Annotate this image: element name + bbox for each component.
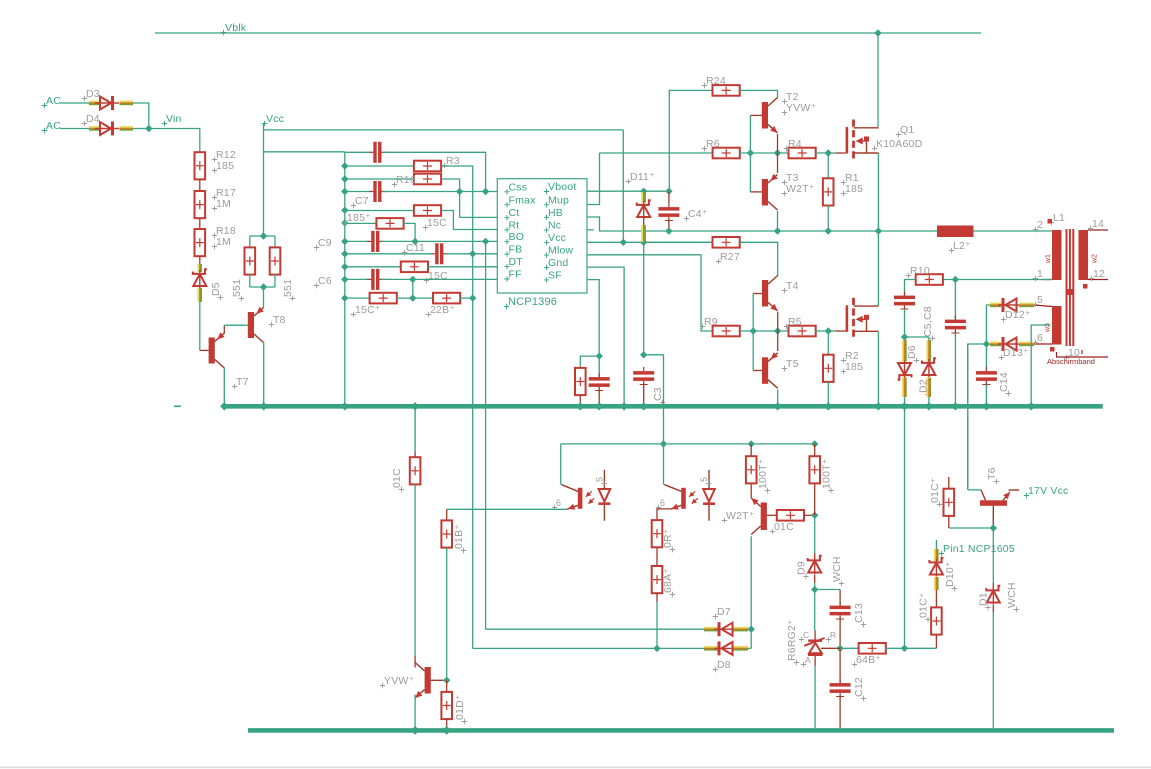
capacitor C7 bbox=[373, 181, 376, 202]
label 01D bbox=[462, 719, 467, 724]
svg-text:C4⁺: C4⁺ bbox=[688, 208, 708, 220]
bus junction 01Ccol bbox=[411, 402, 419, 410]
bus junction T8 bbox=[260, 402, 268, 410]
junction T6 base bbox=[990, 524, 997, 531]
pin 6 opto2 bbox=[656, 505, 661, 510]
label 01B bbox=[461, 548, 466, 553]
label D4 bbox=[82, 121, 87, 126]
svg-text:C3: C3 bbox=[652, 387, 664, 401]
value 1M bbox=[212, 244, 217, 249]
wire D7 row bbox=[486, 628, 706, 630]
wire C11 to FB bbox=[445, 253, 497, 255]
label T8 bbox=[269, 322, 274, 327]
wire rowE to Rt bbox=[441, 211, 497, 230]
label W2T bbox=[722, 518, 727, 523]
wire Vcc stub bbox=[263, 124, 265, 236]
junction 100T b bbox=[811, 440, 818, 447]
svg-text:Vin: Vin bbox=[166, 113, 182, 125]
wire D2 to bus bbox=[928, 397, 930, 406]
lead C13 top bbox=[839, 590, 841, 607]
label 64B bbox=[852, 662, 857, 667]
bus junction W3tap bbox=[1027, 402, 1035, 410]
wire L2 to xfmr bbox=[974, 230, 1053, 232]
lead R17-R18 bbox=[199, 218, 201, 229]
svg-text:D8: D8 bbox=[717, 659, 731, 671]
diode D3 symbol bbox=[100, 97, 111, 110]
svg-text:1M: 1M bbox=[216, 236, 231, 248]
svg-text:Gnd: Gnd bbox=[548, 257, 568, 269]
junction C3 top bbox=[640, 351, 647, 358]
wire 551 left join bbox=[249, 274, 251, 287]
label C7 bbox=[351, 203, 356, 208]
lead C12 top bbox=[839, 648, 841, 683]
junction ref node bbox=[836, 645, 843, 652]
junction Vcc riser bbox=[620, 239, 627, 246]
label C11 bbox=[402, 250, 407, 255]
wire C3 top bbox=[643, 242, 645, 354]
lead C4 top bbox=[668, 191, 670, 203]
svg-text:Q1: Q1 bbox=[900, 124, 914, 136]
pin name Gnd bbox=[544, 265, 549, 270]
minus marker bbox=[174, 405, 181, 407]
transformer shield pin line bbox=[1057, 352, 1109, 357]
lead C12 bot bbox=[839, 697, 841, 729]
svg-text:K10A60D: K10A60D bbox=[876, 138, 923, 150]
pin D4 anode bbox=[89, 126, 100, 128]
transformer core bbox=[1066, 229, 1068, 346]
inductor L2 bbox=[937, 226, 974, 238]
capacitor C14 bbox=[976, 371, 997, 375]
wire T8 collector down bbox=[263, 343, 265, 407]
wire T7C to T8B h bbox=[224, 324, 248, 326]
label T3 bbox=[782, 180, 787, 185]
net label 17V Vcc bbox=[1024, 493, 1029, 498]
svg-text:BO: BO bbox=[509, 231, 525, 243]
pin D10 top bbox=[934, 549, 936, 561]
wire Vcc to cap bus bbox=[264, 151, 345, 153]
wire W2T coll down bbox=[750, 536, 752, 629]
pin name Fmax bbox=[504, 202, 509, 207]
label D9 bbox=[803, 574, 808, 579]
wire T8 emitter up bbox=[263, 287, 265, 308]
svg-text:185⁺: 185⁺ bbox=[347, 212, 371, 224]
transistor T4 bbox=[762, 280, 768, 307]
svg-text:SF: SF bbox=[548, 269, 562, 281]
wire HB step bbox=[587, 217, 669, 231]
pin name Vcc bbox=[544, 240, 549, 245]
label C4 bbox=[684, 216, 689, 221]
junction C4 top bbox=[665, 188, 672, 195]
svg-text:R16: R16 bbox=[396, 174, 416, 186]
pin D7 right bbox=[734, 627, 749, 629]
wire cap bus bbox=[344, 152, 346, 406]
svg-text:R9: R9 bbox=[704, 316, 718, 328]
svg-text:R4: R4 bbox=[788, 138, 802, 150]
pin 5 bbox=[1033, 302, 1038, 307]
wire Ct feed bbox=[460, 216, 498, 218]
lead 68A down bbox=[656, 593, 658, 602]
junction rowH bbox=[341, 250, 348, 257]
pin name FF bbox=[504, 276, 509, 281]
pin name Mlow bbox=[544, 252, 549, 257]
svg-text:1: 1 bbox=[1037, 268, 1043, 280]
resistor 100T 1 bbox=[746, 456, 757, 483]
lead 01C t6 bot bbox=[948, 516, 950, 529]
transistor W2T bbox=[761, 503, 767, 531]
wire SF drop bbox=[587, 280, 599, 357]
capacitor C3 bbox=[633, 371, 654, 375]
op-amp U1 NCP1396 box bbox=[497, 179, 587, 293]
bus junction C3 bbox=[640, 402, 648, 410]
svg-text:C14: C14 bbox=[998, 372, 1010, 392]
label R4 bbox=[784, 146, 789, 151]
transistor T3 bbox=[762, 179, 768, 206]
label T2 bbox=[782, 99, 787, 104]
lead pin5 bbox=[1034, 305, 1052, 307]
label R18 bbox=[212, 233, 217, 238]
svg-text:185: 185 bbox=[845, 361, 863, 373]
zener D5 bbox=[193, 269, 207, 274]
resistor 0R bbox=[652, 520, 663, 547]
label R2 bbox=[841, 358, 846, 363]
resistor 15C rowK bbox=[370, 293, 397, 304]
svg-text:R27: R27 bbox=[720, 251, 740, 263]
zener D2 bbox=[922, 358, 936, 363]
bus junction gnd bbox=[620, 402, 628, 410]
wire Q1 drain bbox=[877, 127, 879, 129]
lead R12-R17 bbox=[199, 179, 201, 191]
lead 100T1 bot bbox=[750, 483, 752, 498]
pin 12 bbox=[1089, 276, 1094, 281]
lead Q1 gate bbox=[836, 152, 847, 154]
label NCP1396 bbox=[504, 304, 509, 309]
label D13 bbox=[999, 355, 1004, 360]
svg-text:6: 6 bbox=[556, 498, 561, 508]
wire ref row b bbox=[885, 647, 936, 649]
lead pin14 bbox=[1088, 229, 1108, 231]
svg-text:YVW⁺: YVW⁺ bbox=[786, 102, 817, 114]
value 185 bbox=[212, 168, 217, 173]
lead cap below IC top bbox=[598, 356, 600, 378]
resistor R12 bbox=[195, 152, 206, 179]
wire R24 to T2 coll bbox=[740, 90, 778, 97]
lead 01D top bbox=[446, 680, 448, 692]
resistor Rt 15C bbox=[414, 205, 441, 216]
wire T5 emit down bbox=[777, 390, 779, 407]
pin D7 left bbox=[704, 627, 719, 629]
transistor T6 bbox=[980, 500, 1007, 506]
label R17 bbox=[212, 195, 217, 200]
wire Vcc row bbox=[587, 241, 713, 243]
wire rowG left bbox=[345, 240, 369, 242]
junction rowB bbox=[341, 162, 348, 169]
resistor R9 bbox=[713, 326, 740, 337]
junction 551 bottom bbox=[260, 283, 267, 290]
zener D1 bbox=[986, 586, 1000, 591]
junction Vin bbox=[145, 125, 152, 132]
wire ref row a bbox=[840, 647, 859, 649]
value 22B rowK bbox=[426, 312, 431, 317]
wire R2 bottom bbox=[827, 382, 829, 406]
wire Mup riser bbox=[587, 153, 600, 205]
wire R10 left corner bbox=[905, 280, 916, 297]
capacitor C13 bbox=[830, 606, 851, 610]
svg-text:17V Vcc: 17V Vcc bbox=[1028, 485, 1069, 497]
wire BO-D7 vertical bbox=[485, 241, 487, 629]
wire IC Gnd col bbox=[623, 266, 625, 268]
pin D13 left bbox=[990, 342, 1001, 344]
junction T23 base bbox=[747, 149, 754, 156]
value WCH D1 bbox=[1014, 607, 1019, 612]
label R16 bbox=[392, 182, 397, 187]
label 01C d10 bbox=[925, 617, 930, 622]
wire C8 down bbox=[954, 333, 956, 406]
wire rowA left bbox=[345, 151, 371, 153]
svg-text:FB: FB bbox=[509, 244, 523, 256]
svg-text:AC: AC bbox=[46, 95, 61, 107]
resistor R3 bbox=[414, 161, 441, 172]
wire 551 bottom bbox=[250, 286, 275, 288]
junction R2 top bbox=[825, 327, 832, 334]
svg-text:L2⁺: L2⁺ bbox=[953, 240, 971, 252]
junction rowE bbox=[341, 207, 348, 214]
wire Vboot row bbox=[587, 190, 669, 192]
capacitor rowA bbox=[373, 142, 376, 163]
label R10 bbox=[906, 273, 911, 278]
pin name Vboot bbox=[544, 189, 549, 194]
lead C8 top bbox=[954, 280, 956, 321]
wire D10 node down bbox=[992, 528, 994, 583]
svg-text:64B⁺: 64B⁺ bbox=[856, 654, 881, 666]
diode D13 bbox=[1002, 337, 1005, 351]
wire T5 coll up bbox=[777, 331, 779, 351]
svg-text:C11: C11 bbox=[406, 242, 425, 254]
value 185 R2 bbox=[841, 369, 846, 374]
junction FB bbox=[469, 250, 476, 257]
pin D6 bottom bbox=[902, 378, 904, 398]
label D1 bbox=[985, 605, 990, 610]
resistor R5 bbox=[789, 326, 816, 337]
label C3 bbox=[660, 400, 665, 405]
svg-text:T5: T5 bbox=[786, 358, 799, 370]
svg-text:5: 5 bbox=[595, 477, 605, 482]
capacitor C4 bbox=[658, 207, 679, 211]
value 15C rowI bbox=[424, 278, 429, 283]
lead 100T1 top bbox=[750, 444, 752, 457]
lead D1 top bbox=[992, 583, 994, 589]
resistor R27 bbox=[713, 237, 740, 248]
stub W2T base bbox=[767, 514, 778, 516]
diode D7 bbox=[718, 622, 721, 636]
junction D11 top bbox=[640, 188, 647, 195]
transistor T7 bbox=[209, 338, 215, 364]
label D10 bbox=[952, 586, 957, 591]
zener D9 bbox=[808, 556, 822, 561]
wire D2 top bbox=[928, 337, 930, 340]
pin D5 bottom bbox=[197, 288, 199, 302]
svg-text:6: 6 bbox=[1037, 332, 1043, 344]
lead 01D bot bbox=[446, 719, 448, 728]
pin name Nc bbox=[544, 227, 549, 232]
wire 551 left down bbox=[249, 236, 251, 248]
svg-text:D4: D4 bbox=[86, 113, 100, 125]
resistor R17 bbox=[195, 191, 206, 218]
junction D8 68A bbox=[653, 645, 660, 652]
svg-text:W2T⁺: W2T⁺ bbox=[726, 510, 755, 522]
wire clamp right bbox=[905, 336, 929, 338]
wire R1 bottom bbox=[827, 206, 829, 232]
lead 01Cb right bbox=[804, 514, 815, 516]
wire AC1 bbox=[60, 102, 89, 104]
wire FF-rowK link bbox=[412, 279, 414, 298]
label D5 bbox=[218, 295, 223, 300]
wire W3 tap bbox=[1031, 325, 1050, 406]
lead pin1 bbox=[1042, 279, 1052, 281]
capacitor C9 bbox=[371, 231, 374, 252]
junction rowK bbox=[341, 294, 348, 301]
shunt regulator R6RG2 bbox=[808, 640, 822, 642]
svg-text:551: 551 bbox=[231, 279, 243, 297]
wire Fmax-FB-D8 vertical bbox=[472, 205, 474, 649]
label D7 bbox=[713, 614, 718, 619]
svg-text:L1: L1 bbox=[1053, 212, 1065, 224]
resistor 01C base bbox=[777, 510, 804, 521]
svg-text:R24: R24 bbox=[706, 75, 726, 87]
window edge bbox=[0, 767, 1151, 769]
wire HB rail bbox=[669, 230, 937, 232]
wire YVW emit bbox=[414, 695, 416, 729]
junction T45 base bbox=[750, 327, 757, 334]
bus junction C14 bbox=[982, 402, 990, 410]
wire C7 to Css bbox=[383, 191, 497, 193]
bus junction res bbox=[576, 402, 584, 410]
svg-text:01C⁺: 01C⁺ bbox=[929, 477, 941, 503]
wire C9 to BO bbox=[381, 240, 497, 242]
pin D11 bottom bbox=[641, 225, 643, 242]
svg-text:100T⁺: 100T⁺ bbox=[757, 458, 769, 489]
label R6RG2 bbox=[794, 660, 799, 665]
lead D11 bottom bbox=[643, 217, 645, 225]
resistor R6 bbox=[713, 148, 740, 159]
junction rowG bbox=[341, 238, 348, 245]
pin name DT bbox=[504, 264, 509, 269]
transformer polarity dot W2 bbox=[1083, 284, 1088, 289]
wire rowF to BO bbox=[404, 223, 416, 241]
label D12 bbox=[1001, 317, 1006, 322]
wire pin1 stub bbox=[935, 540, 937, 549]
bus junction D6 bbox=[900, 402, 908, 410]
pin 6 opto1 bbox=[552, 505, 557, 510]
svg-text:DT: DT bbox=[509, 256, 524, 268]
junction Css a bbox=[456, 188, 463, 195]
resistor 551 left bbox=[245, 247, 256, 274]
resistor R16 bbox=[414, 174, 441, 185]
svg-text:D11⁺: D11⁺ bbox=[630, 171, 655, 183]
wire gnd drop long bbox=[904, 406, 906, 648]
svg-text:WCH: WCH bbox=[1006, 582, 1018, 608]
transformer L1 W3 winding bbox=[1052, 306, 1062, 345]
optocoupler IC2 bbox=[578, 488, 583, 509]
lead pin12 bbox=[1088, 279, 1108, 281]
pin D6 top bbox=[902, 340, 904, 362]
svg-text:W2T⁺: W2T⁺ bbox=[786, 183, 815, 195]
capacitor C6 bbox=[371, 269, 374, 290]
label C13 bbox=[861, 622, 866, 627]
svg-text:Vcc: Vcc bbox=[548, 232, 566, 244]
net label Vblk bbox=[221, 30, 226, 35]
value 551 left bbox=[239, 296, 244, 301]
value 551 right bbox=[290, 296, 295, 301]
wire R9 to bases bbox=[740, 330, 789, 332]
lead D9 top bbox=[814, 553, 816, 559]
label 01C left bbox=[399, 487, 404, 492]
pin 14 bbox=[1088, 226, 1093, 231]
wire R27 to T4 bbox=[740, 242, 778, 276]
resistor 01D bbox=[441, 692, 452, 719]
svg-text:R10: R10 bbox=[910, 265, 930, 277]
zener D10 bbox=[929, 558, 943, 563]
zener D6 bbox=[898, 375, 912, 380]
junction D7 right bbox=[748, 626, 755, 633]
wire D5 to T7 bbox=[199, 302, 201, 350]
lead D1 bot bbox=[992, 605, 994, 612]
label D6 bbox=[914, 358, 919, 363]
label 01C base bbox=[770, 529, 775, 534]
transistor T5 bbox=[762, 357, 768, 384]
capacitor C12 bbox=[830, 683, 851, 687]
wire T7C to T8B v bbox=[223, 325, 225, 333]
lead R18-D5 bbox=[199, 256, 201, 264]
lead 100T2 bot bbox=[814, 483, 816, 515]
lead C3 bot bbox=[643, 385, 645, 406]
bus2 junction 01D bbox=[442, 726, 451, 735]
svg-text:100T⁺: 100T⁺ bbox=[821, 458, 833, 489]
wire rowH left bbox=[345, 253, 432, 255]
pin A bbox=[801, 662, 806, 667]
capacitor C11 bbox=[435, 243, 438, 264]
wire T7 base lead bbox=[200, 349, 209, 351]
wire T2T3 base vert bbox=[749, 115, 751, 191]
junction BO a bbox=[411, 238, 418, 245]
label C5C8 bbox=[930, 336, 935, 341]
label R27 bbox=[716, 259, 721, 264]
svg-text:w2: w2 bbox=[1092, 254, 1099, 264]
lead pin6 bbox=[1034, 343, 1052, 345]
junction rowK right bbox=[469, 294, 476, 301]
svg-text:R: R bbox=[830, 630, 836, 640]
wire R1 top bbox=[827, 153, 829, 178]
resistor 100T 2 bbox=[809, 456, 820, 483]
svg-text:R3: R3 bbox=[446, 155, 460, 167]
junction C8 top bbox=[952, 276, 959, 283]
net label AC 2 bbox=[42, 128, 47, 133]
svg-text:NCP1396: NCP1396 bbox=[508, 296, 557, 308]
svg-text:Abschirmband: Abschirmband bbox=[1047, 357, 1095, 366]
svg-text:C6: C6 bbox=[318, 275, 332, 287]
wire R2 top bbox=[827, 331, 829, 355]
label 68A bbox=[670, 592, 675, 597]
wire rowK right bbox=[460, 297, 473, 299]
pin D10 bottom bbox=[934, 577, 936, 590]
wire rowE left bbox=[345, 210, 414, 212]
wire out to T6 bbox=[968, 344, 987, 490]
label R12 bbox=[212, 157, 217, 162]
wire D8 right link bbox=[748, 647, 751, 649]
svg-text:R6RG2⁺: R6RG2⁺ bbox=[786, 619, 798, 661]
label D2 bbox=[925, 392, 930, 397]
svg-text:12: 12 bbox=[1093, 268, 1105, 280]
svg-text:D9: D9 bbox=[796, 561, 808, 575]
